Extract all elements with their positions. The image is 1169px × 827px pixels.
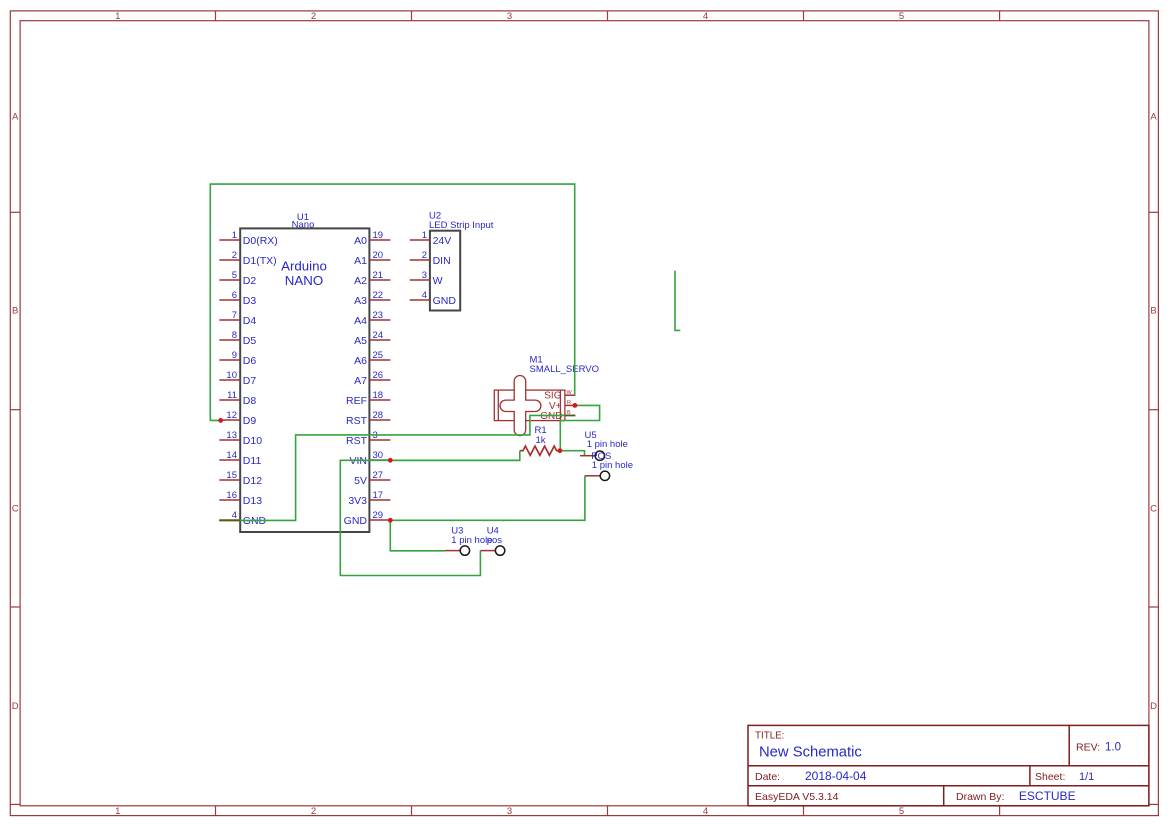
svg-text:1/1: 1/1 (1079, 771, 1094, 783)
junction dot VIN (388, 458, 393, 463)
svg-text:REV:: REV: (1076, 742, 1100, 754)
U1 right pin names (344, 235, 368, 527)
title block (748, 725, 1149, 805)
svg-text:3: 3 (507, 806, 512, 817)
svg-text:12: 12 (226, 410, 237, 421)
svg-text:9: 9 (232, 350, 237, 361)
svg-text:A6: A6 (354, 355, 367, 367)
wire R1 right to U5 POS pin (560, 451, 585, 456)
svg-text:13: 13 (226, 430, 237, 441)
svg-text:C: C (12, 503, 19, 514)
wire overlap olive on servo GND pin (565, 414, 575, 416)
U2 pin numbers (422, 230, 427, 301)
svg-text:1: 1 (422, 230, 427, 241)
frame column labels bottom (115, 806, 904, 817)
svg-text:4: 4 (422, 290, 427, 301)
M1 body (494, 390, 565, 421)
svg-text:D9: D9 (243, 415, 257, 427)
junction dot GND29 (388, 518, 393, 523)
svg-text:1: 1 (232, 230, 237, 241)
svg-text:28: 28 (373, 410, 384, 421)
connector U2 LED Strip Input (410, 210, 494, 310)
svg-text:EasyEDA V5.3.14: EasyEDA V5.3.14 (755, 791, 839, 803)
svg-text:8: 8 (232, 330, 237, 341)
svg-text:Arduino: Arduino (281, 259, 327, 274)
svg-text:30: 30 (373, 450, 384, 461)
svg-text:16: 16 (226, 490, 237, 501)
svg-text:Sheet:: Sheet: (1035, 771, 1065, 783)
svg-text:22: 22 (373, 290, 384, 301)
svg-text:3: 3 (507, 11, 512, 22)
U1 right pin numbers (373, 230, 384, 521)
frame row ticks left (10, 212, 20, 804)
svg-text:D: D (12, 701, 19, 712)
U1 body box (240, 228, 369, 532)
svg-text:D3: D3 (243, 295, 257, 307)
svg-text:New Schematic: New Schematic (759, 745, 862, 761)
svg-text:A0: A0 (354, 235, 367, 247)
U2 pin names (433, 235, 457, 307)
wire GND pin29 to lower pin hole (390, 476, 585, 521)
svg-text:SMALL_SERVO: SMALL_SERVO (530, 364, 600, 375)
junction dot D9 (218, 418, 223, 423)
svg-text:5: 5 (899, 11, 904, 22)
svg-text:23: 23 (373, 310, 384, 321)
frame column ticks top (216, 11, 1000, 21)
svg-text:14: 14 (226, 450, 237, 461)
svg-text:18: 18 (373, 390, 384, 401)
svg-text:15: 15 (226, 470, 237, 481)
wire GND pin4 to servo GND (219, 415, 575, 520)
svg-text:1: 1 (115, 11, 120, 22)
frame row labels left (12, 112, 19, 712)
svg-text:20: 20 (373, 250, 384, 261)
svg-text:1k: 1k (536, 435, 546, 446)
svg-text:6: 6 (232, 290, 237, 301)
U1 left pin numbers (226, 230, 237, 521)
svg-text:W: W (567, 390, 573, 396)
svg-text:W: W (433, 275, 443, 287)
svg-text:D11: D11 (243, 455, 262, 467)
pin hole U3 (445, 526, 493, 556)
junction dot servo V+ (573, 403, 578, 408)
U1 left pin names (243, 235, 278, 527)
svg-text:Nano: Nano (292, 219, 315, 230)
svg-text:2: 2 (311, 11, 316, 22)
svg-text:1 pin hole: 1 pin hole (592, 460, 633, 471)
svg-text:4: 4 (703, 11, 708, 22)
svg-text:B: B (1150, 305, 1156, 316)
svg-text:D13: D13 (243, 495, 262, 507)
svg-text:3V3: 3V3 (348, 495, 367, 507)
svg-text:27: 27 (373, 470, 384, 481)
svg-text:5: 5 (232, 270, 237, 281)
svg-text:1: 1 (115, 806, 120, 817)
wire GND pin29 branch to U3 (390, 520, 445, 551)
pin hole U5 (580, 430, 628, 462)
svg-text:LED Strip Input: LED Strip Input (429, 220, 494, 231)
svg-text:GND: GND (344, 515, 368, 527)
svg-text:25: 25 (373, 350, 384, 361)
svg-text:D8: D8 (243, 395, 257, 407)
svg-text:A: A (1150, 112, 1157, 123)
svg-text:GND: GND (433, 295, 457, 307)
wire servo V+ to R1 right (560, 405, 599, 450)
pin hole U4 (480, 526, 504, 556)
wire VIN net to R1 left and U4 (340, 451, 520, 576)
svg-text:29: 29 (373, 510, 384, 521)
svg-text:D0(RX): D0(RX) (243, 235, 278, 247)
junction dot R1 right (558, 448, 563, 453)
title block texts (755, 731, 1121, 803)
svg-text:24V: 24V (433, 235, 452, 247)
M1 pin names (540, 391, 562, 422)
svg-text:D1(TX): D1(TX) (243, 255, 277, 267)
svg-text:24: 24 (373, 330, 384, 341)
svg-text:17: 17 (373, 490, 384, 501)
svg-text:A3: A3 (354, 295, 367, 307)
connector U1 Arduino Nano (219, 212, 390, 532)
pin hole below U5 (585, 460, 633, 480)
svg-text:NANO: NANO (285, 273, 323, 288)
wire overlap olive on GND pin4 (219, 519, 240, 521)
svg-text:2018-04-04: 2018-04-04 (805, 769, 867, 783)
motor M1 SMALL_SERVO (494, 355, 599, 436)
svg-text:B: B (12, 305, 18, 316)
svg-text:REF: REF (346, 395, 367, 407)
svg-text:5V: 5V (354, 475, 367, 487)
frame column labels top (115, 11, 904, 22)
svg-text:26: 26 (373, 370, 384, 381)
svg-text:A: A (12, 112, 19, 123)
svg-text:21: 21 (373, 270, 384, 281)
svg-text:D6: D6 (243, 355, 257, 367)
svg-text:A4: A4 (354, 315, 367, 327)
svg-text:A1: A1 (354, 255, 367, 267)
svg-text:D2: D2 (243, 275, 257, 287)
svg-text:RST: RST (346, 415, 368, 427)
M1 pin designator letters (567, 390, 573, 416)
M1 pin lines (565, 395, 576, 415)
svg-text:TITLE:: TITLE: (755, 731, 784, 742)
svg-text:19: 19 (373, 230, 384, 241)
svg-text:2: 2 (311, 806, 316, 817)
svg-text:Date:: Date: (755, 771, 780, 783)
svg-text:DIN: DIN (433, 255, 451, 267)
svg-text:ESCTUBE: ESCTUBE (1019, 789, 1076, 803)
U2 body box (430, 231, 460, 311)
frame column ticks bottom (216, 806, 1000, 816)
svg-text:GND: GND (540, 411, 562, 422)
svg-text:R: R (567, 400, 571, 406)
wire dangling stub near U2 (675, 271, 680, 331)
svg-text:1.0: 1.0 (1105, 742, 1121, 754)
svg-text:RST: RST (346, 435, 368, 447)
frame row labels right (1150, 112, 1157, 712)
svg-text:D10: D10 (243, 435, 262, 447)
svg-text:4: 4 (703, 806, 708, 817)
svg-text:10: 10 (226, 370, 237, 381)
svg-text:D7: D7 (243, 375, 257, 387)
svg-text:pos: pos (487, 535, 503, 546)
svg-text:3: 3 (422, 270, 427, 281)
svg-text:D5: D5 (243, 335, 257, 347)
U1 right pin lines (369, 240, 390, 520)
svg-text:C: C (1150, 503, 1157, 514)
wire D9 to servo SIG (210, 184, 574, 420)
frame row ticks right (1149, 212, 1159, 804)
svg-text:7: 7 (232, 310, 237, 321)
svg-text:A7: A7 (354, 375, 367, 387)
svg-text:D12: D12 (243, 475, 262, 487)
svg-text:D4: D4 (243, 315, 257, 327)
svg-text:A5: A5 (354, 335, 367, 347)
svg-text:2: 2 (422, 250, 427, 261)
svg-text:A2: A2 (354, 275, 367, 287)
svg-text:2: 2 (232, 250, 237, 261)
U2 pin lines (410, 240, 430, 300)
svg-text:5: 5 (899, 806, 904, 817)
M1 servo horn cross (500, 376, 541, 436)
svg-text:11: 11 (227, 390, 237, 401)
svg-text:D: D (1150, 701, 1157, 712)
resistor R1 (520, 425, 560, 455)
svg-text:Drawn By:: Drawn By: (956, 791, 1004, 803)
wire VIN pin stub (390, 459, 520, 461)
svg-text:4: 4 (232, 510, 237, 521)
U1 left pin lines (219, 240, 240, 520)
svg-text:1 pin hole: 1 pin hole (587, 439, 628, 450)
